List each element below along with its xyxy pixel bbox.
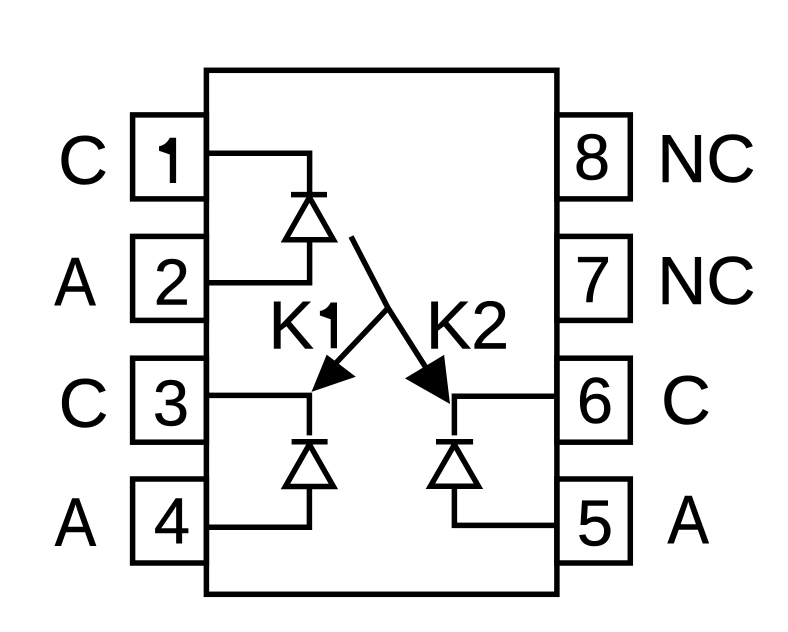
pin 7 box [557, 236, 630, 320]
diode D3 cathode bar [436, 439, 473, 445]
svg-text:NC: NC [657, 243, 755, 319]
K2 arrowhead [405, 355, 450, 404]
svg-text:4: 4 [154, 484, 190, 557]
diode D1 cathode bar [291, 192, 327, 198]
svg-text:A: A [55, 484, 97, 561]
svg-text:3: 3 [153, 367, 189, 440]
svg-text:8: 8 [574, 120, 610, 193]
svg-text:A: A [667, 481, 709, 558]
svg-text:K: K [269, 287, 314, 363]
svg-text:K2: K2 [426, 287, 509, 363]
svg-text:5: 5 [577, 486, 613, 559]
pin 5 box [557, 479, 630, 563]
K1 K2 pointer line [351, 237, 442, 394]
wire pin 1 to D1 cathode [206, 153, 309, 201]
svg-text:7: 7 [575, 243, 611, 316]
wire D2 anode to pin 4 [206, 487, 309, 528]
pin 1 number [159, 138, 176, 183]
pin 8 box [557, 115, 630, 199]
svg-text:C: C [59, 365, 109, 442]
svg-text:6: 6 [577, 364, 613, 437]
IC body U1 [206, 70, 557, 594]
svg-text:NC: NC [657, 121, 755, 197]
pin 3 box [133, 358, 207, 442]
svg-text:A: A [54, 243, 96, 320]
wire D3 anode to pin 5 [454, 486, 557, 525]
pin 6 box [557, 358, 630, 442]
svg-text:C: C [58, 122, 108, 199]
diode D2 [285, 444, 333, 486]
pin 2 box [133, 236, 207, 320]
K1 arrowhead [312, 355, 356, 392]
svg-text:2: 2 [154, 246, 190, 319]
diode D2 cathode bar [292, 439, 328, 445]
wire pin 3 to D2 cathode [206, 395, 309, 435]
wire pin 6 to D3 cathode [454, 396, 557, 435]
wire D1 anode to pin 2 [206, 240, 309, 283]
pin 1 box [133, 115, 207, 199]
svg-text:C: C [661, 362, 711, 439]
pin 4 box [133, 479, 207, 563]
diode D1 [285, 197, 333, 239]
K1 arrow line [335, 308, 388, 364]
diode D3 [430, 445, 478, 487]
